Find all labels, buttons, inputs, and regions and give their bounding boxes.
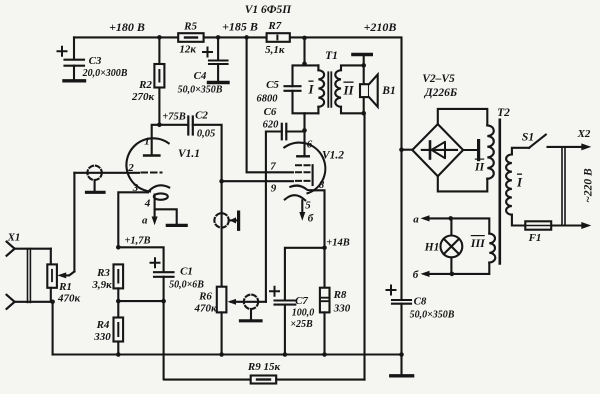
svg-text:+185 В: +185 В bbox=[222, 20, 258, 34]
lamp H1 bbox=[424, 218, 463, 274]
svg-text:8: 8 bbox=[319, 179, 325, 191]
svg-text:б: б bbox=[413, 269, 419, 281]
switch S1 bbox=[512, 132, 546, 155]
resistor R4 bbox=[93, 301, 123, 354]
node junction rail-T1 top bbox=[302, 36, 307, 41]
capacitor C6 bbox=[263, 106, 305, 302]
svg-text:II: II bbox=[474, 160, 486, 174]
node junction rail-screen feed bbox=[244, 35, 249, 40]
svg-text:R4: R4 bbox=[96, 319, 110, 331]
capacitor C5 bbox=[257, 79, 301, 105]
svg-text:270к: 270к bbox=[131, 91, 155, 103]
svg-text:R1: R1 bbox=[58, 281, 72, 293]
grid g2 dashes bbox=[296, 171, 313, 173]
potentiometer R1 bbox=[47, 249, 80, 305]
anode plate bbox=[144, 154, 159, 156]
wire b bbox=[413, 269, 452, 281]
heater ellipse bbox=[154, 193, 168, 199]
fuse F1 bbox=[512, 215, 581, 244]
svg-text:B1: B1 bbox=[381, 85, 395, 97]
wire lamp top to winding III bbox=[451, 218, 490, 233]
svg-text:H1: H1 bbox=[424, 242, 440, 254]
heater V1.1 lead to chassis ground bbox=[155, 209, 187, 225]
svg-text:R9 15к: R9 15к bbox=[247, 361, 281, 373]
wire bridge bottom to T2 winding II bottom bbox=[438, 176, 488, 191]
wire bridge right corner to chassis bbox=[463, 141, 479, 160]
wire cathode V1.1 to R3 bbox=[118, 192, 148, 247]
wire grid junction to pin 9 bbox=[222, 180, 293, 182]
svg-text:620: 620 bbox=[263, 120, 280, 131]
node junction +210V rail/bridge bbox=[399, 147, 404, 152]
svg-text:~220 В: ~220 В bbox=[583, 168, 595, 203]
svg-text:330: 330 bbox=[93, 331, 111, 343]
svg-text:C1: C1 bbox=[180, 266, 193, 278]
svg-text:III: III bbox=[470, 236, 486, 250]
connector X2 top arrow bbox=[581, 143, 591, 150]
node junction R1 bottom bbox=[50, 300, 55, 305]
svg-text:I: I bbox=[307, 82, 314, 97]
triode V1.1 bbox=[126, 136, 200, 210]
transformer T1 core bbox=[328, 72, 331, 107]
cathode arc bbox=[148, 185, 169, 192]
lamp H1 circuit: wire a bbox=[413, 214, 450, 226]
wire anode V1.1 to C2 bbox=[152, 125, 189, 156]
wire grid junction down to R6 (screened) bbox=[221, 181, 223, 287]
svg-text:0,05: 0,05 bbox=[197, 129, 215, 140]
svg-text:a: a bbox=[142, 215, 148, 227]
resistor R2 bbox=[131, 37, 164, 124]
wire +180V/+185V/+210V top rail bbox=[74, 37, 402, 149]
node grid V1.2 junction (C2/R6) bbox=[219, 179, 224, 184]
svg-text:Д226Б: Д226Б bbox=[424, 87, 457, 99]
svg-text:470к: 470к bbox=[57, 293, 81, 305]
shield input (screened wire) bbox=[87, 166, 105, 193]
wire C2 to grid node bbox=[193, 125, 222, 181]
node junction secondary/speaker bottom bbox=[361, 111, 366, 116]
grid g1 dashes bbox=[296, 180, 313, 182]
svg-text:+180 В: +180 В bbox=[109, 20, 145, 34]
resistor R3 bbox=[91, 264, 123, 301]
svg-text:12к: 12к bbox=[179, 44, 196, 56]
svg-text:4: 4 bbox=[144, 198, 151, 210]
wire cathode node to C1 bbox=[118, 247, 163, 271]
svg-text:100,0: 100,0 bbox=[292, 308, 315, 319]
node junction lamp top bbox=[448, 216, 453, 221]
svg-text:6800: 6800 bbox=[257, 94, 279, 105]
svg-text:+1,7В: +1,7В bbox=[124, 236, 150, 247]
wire anode V1.2 to T1 bbox=[303, 113, 305, 130]
heater V1.2 lead b (arrow down) bbox=[299, 200, 313, 224]
wire R6 wiper to grid wire bbox=[258, 301, 266, 303]
svg-text:×25В: ×25В bbox=[290, 319, 313, 330]
svg-text:V2–V5: V2–V5 bbox=[422, 73, 455, 85]
transformer T2 core bbox=[498, 120, 501, 264]
svg-text:C4: C4 bbox=[194, 70, 207, 82]
svg-text:R6: R6 bbox=[198, 291, 212, 303]
transformer T1 primary winding I bbox=[293, 38, 338, 115]
transformer T1 secondary winding II bbox=[335, 65, 363, 113]
capacitor C1 bbox=[151, 258, 205, 301]
resistor R5 bbox=[178, 21, 203, 56]
svg-text:S1: S1 bbox=[522, 132, 534, 144]
wire switch to X2 top bbox=[548, 146, 582, 148]
svg-text:1: 1 bbox=[144, 136, 150, 148]
svg-text:5: 5 bbox=[305, 200, 311, 212]
svg-text:20,0×300В: 20,0×300В bbox=[82, 68, 128, 79]
cathode arc bbox=[290, 185, 314, 190]
svg-text:50,0×6В: 50,0×6В bbox=[169, 280, 204, 291]
wire R3 bottom to C1 bottom to feedback line bbox=[118, 300, 163, 302]
svg-text:5,1к: 5,1к bbox=[265, 44, 285, 56]
wire cathode V1.2 (pin 8) to +14V node bbox=[315, 190, 325, 248]
node junction rail-R2 bbox=[157, 35, 162, 40]
svg-text:X2: X2 bbox=[577, 128, 591, 140]
wire ground rail bbox=[53, 353, 402, 355]
transformer T2 winding I bbox=[506, 155, 523, 215]
node junction R3/C1/R4/feedback bbox=[116, 299, 121, 304]
chassis ground above speaker bbox=[353, 55, 371, 66]
svg-text:R8: R8 bbox=[333, 289, 347, 301]
svg-text:C8: C8 bbox=[414, 296, 427, 308]
svg-text:T1: T1 bbox=[325, 50, 338, 62]
svg-text:+75В: +75В bbox=[162, 112, 186, 123]
node junction C6/anode bbox=[302, 128, 307, 133]
shield middle (screened wire to grid) bbox=[214, 212, 238, 229]
node junction rail-R8 bbox=[322, 352, 327, 357]
resistor R8 bbox=[320, 248, 351, 355]
svg-text:7: 7 bbox=[270, 161, 276, 173]
wire feedback to speaker bbox=[363, 113, 365, 379]
potentiometer R6 bbox=[193, 287, 258, 355]
resistor R9 feedback bbox=[247, 361, 365, 384]
svg-text:V1 6Ф5П: V1 6Ф5П bbox=[245, 4, 293, 16]
diode bridge V2-V5 bbox=[412, 73, 463, 176]
wire screen feed from rail to pin 7 bbox=[247, 37, 293, 172]
envelope bbox=[284, 143, 325, 194]
connector X2 double line bbox=[562, 147, 565, 226]
transformer T2 winding III bbox=[470, 234, 496, 263]
svg-text:3,9к: 3,9к bbox=[91, 279, 112, 291]
svg-text:X1: X1 bbox=[7, 232, 21, 244]
svg-text:+14В: +14В bbox=[326, 238, 350, 249]
svg-text:470к: 470к bbox=[193, 303, 217, 315]
resistor R7 bbox=[265, 20, 290, 56]
wire bridge top to T2 winding II top bbox=[438, 109, 488, 126]
svg-text:R5: R5 bbox=[183, 21, 197, 33]
node junction rail-R4 bbox=[116, 352, 121, 357]
node +14V junction bbox=[322, 246, 327, 251]
svg-text:T2: T2 bbox=[497, 107, 510, 119]
capacitor C2 bbox=[188, 110, 215, 140]
pentode V1.2 bbox=[270, 130, 344, 211]
svg-text:6: 6 bbox=[307, 139, 313, 151]
node junction rail-R6 bbox=[219, 352, 224, 357]
node junction rail-C4 bbox=[216, 35, 221, 40]
capacitor C7 bbox=[270, 248, 325, 355]
svg-text:C3: C3 bbox=[89, 55, 102, 67]
speaker B1 bbox=[360, 65, 396, 113]
wire grid V1.1 input bbox=[74, 172, 139, 174]
svg-text:II: II bbox=[342, 83, 354, 98]
anode plate bbox=[297, 155, 309, 157]
svg-text:50,0×350В: 50,0×350В bbox=[178, 85, 223, 96]
connector X2 bottom arrow bbox=[581, 222, 591, 229]
transformer T2 winding II bbox=[474, 125, 494, 178]
svg-text:330: 330 bbox=[333, 303, 351, 315]
grid dashes bbox=[142, 172, 162, 174]
svg-text:V1.2: V1.2 bbox=[322, 150, 344, 162]
svg-text:a: a bbox=[413, 214, 419, 226]
svg-text:C5: C5 bbox=[266, 79, 279, 91]
node +75V junction anode/R2/C2 bbox=[157, 123, 162, 128]
capacitor C3 bbox=[58, 37, 128, 80]
node +1.7V cathode junction bbox=[116, 245, 121, 250]
svg-text:F1: F1 bbox=[528, 232, 542, 244]
wire shield to R1 wiper bbox=[73, 173, 75, 272]
grid g3 dashes + tie to cathode bbox=[296, 164, 313, 166]
svg-text:V1.1: V1.1 bbox=[178, 148, 200, 160]
svg-text:б: б bbox=[308, 213, 314, 225]
heater arc bbox=[285, 195, 305, 200]
wire bridge left corner to rail bbox=[402, 149, 413, 151]
svg-text:R2: R2 bbox=[138, 79, 152, 91]
svg-text:C2: C2 bbox=[195, 110, 208, 122]
heater V1.1 lead a (arrow down) bbox=[142, 195, 158, 227]
svg-text:50,0×350В: 50,0×350В bbox=[410, 310, 455, 321]
node junction rail-C8 bbox=[399, 352, 404, 357]
svg-text:R3: R3 bbox=[96, 267, 110, 279]
svg-text:+210В: +210В bbox=[364, 20, 397, 34]
connector X1 bbox=[7, 232, 53, 309]
wire lamp bottom to winding III bbox=[452, 263, 489, 274]
capacitor C8 bbox=[387, 150, 455, 376]
node junction rail-C7 bbox=[283, 352, 288, 357]
envelope bbox=[126, 138, 168, 191]
svg-text:C7: C7 bbox=[295, 295, 308, 307]
svg-text:C6: C6 bbox=[264, 106, 277, 118]
node junction secondary/speaker top bbox=[361, 63, 366, 68]
wire X1 bottom to ground rail bbox=[52, 302, 54, 355]
svg-text:9: 9 bbox=[271, 183, 277, 195]
node junction lamp bottom bbox=[450, 272, 455, 277]
svg-text:R7: R7 bbox=[267, 20, 281, 32]
shield R6 wiper (screened wire, grounded) bbox=[241, 295, 262, 321]
svg-text:I: I bbox=[516, 175, 523, 190]
capacitor C4 bbox=[178, 37, 228, 95]
